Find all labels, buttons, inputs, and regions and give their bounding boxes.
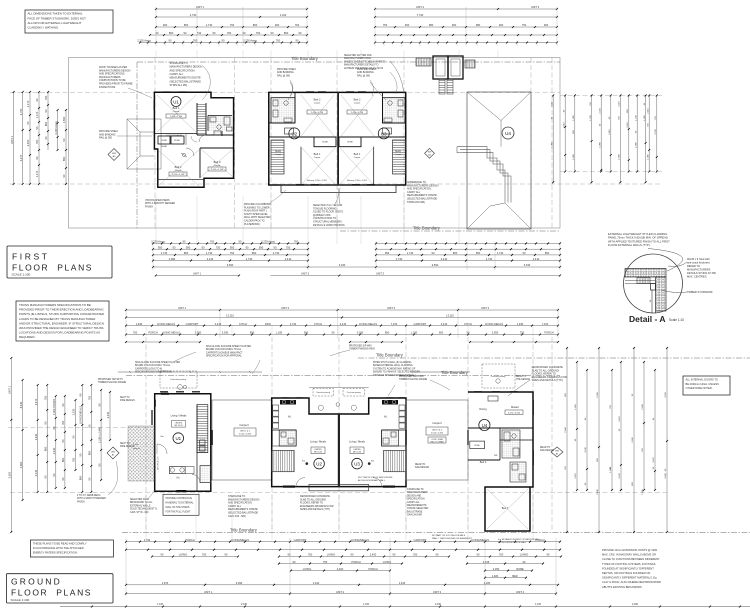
svg-text:2,170: 2,170 — [26, 100, 30, 107]
svg-text:L,180: L,180 — [411, 331, 418, 335]
svg-text:90: 90 — [213, 31, 216, 35]
svg-text:Title Boundary: Title Boundary — [441, 370, 469, 375]
svg-text:1,980: 1,980 — [644, 114, 646, 120]
svg-text:760: 760 — [72, 457, 76, 462]
svg-text:90: 90 — [35, 156, 39, 159]
svg-text:Balcony 2,350 x 1,200: Balcony 2,350 x 1,200 — [307, 180, 328, 182]
svg-text:LIVING: LIVING — [179, 553, 188, 557]
svg-text:THESE PLANS TO BE READ AND COM: THESE PLANS TO BE READ AND COMPLY — [33, 542, 87, 546]
svg-text:UNIT 3 & 4: UNIT 3 & 4 — [432, 429, 443, 431]
svg-text:GROUND: GROUND — [11, 577, 62, 587]
svg-text:760: 760 — [256, 31, 261, 35]
svg-text:Bed 2: Bed 2 — [314, 98, 321, 102]
svg-text:PORCH: PORCH — [544, 331, 553, 335]
svg-text:5,510 x 2,810: 5,510 x 2,810 — [239, 434, 252, 436]
svg-text:860: 860 — [545, 251, 550, 255]
svg-text:2,734: 2,734 — [290, 322, 297, 326]
svg-text:FOR THE FULL FLIGHT.: FOR THE FULL FLIGHT. — [166, 512, 192, 514]
svg-text:90: 90 — [288, 553, 291, 557]
svg-text:760: 760 — [210, 240, 215, 244]
svg-text:2,440: 2,440 — [597, 391, 599, 397]
svg-text:PROPOSED SIP WAY: PROPOSED SIP WAY — [349, 345, 372, 348]
svg-text:LOCATIONS AND DESIGN FOR LOADB: LOCATIONS AND DESIGN FOR LOADBEARING POI… — [19, 331, 100, 335]
svg-text:UNIT 3: UNIT 3 — [433, 590, 442, 594]
svg-text:90: 90 — [161, 553, 164, 557]
svg-text:ALL DIMENSIONS TAKEN TO EXTERN: ALL DIMENSIONS TAKEN TO EXTERNAL — [28, 12, 83, 16]
svg-text:ROBE: ROBE — [516, 567, 524, 571]
svg-text:LIMITED: LIMITED — [314, 449, 322, 451]
svg-text:THE DESIGN: THE DESIGN — [516, 379, 530, 381]
svg-text:750: 750 — [323, 560, 328, 564]
svg-text:90: 90 — [97, 463, 101, 466]
svg-text:90: 90 — [271, 31, 274, 35]
svg-text:1,315: 1,315 — [157, 603, 164, 606]
svg-text:2,440: 2,440 — [565, 426, 567, 432]
svg-text:2,410: 2,410 — [215, 322, 222, 326]
svg-text:2,440: 2,440 — [665, 472, 667, 478]
svg-text:UNIT 3: UNIT 3 — [376, 272, 385, 276]
svg-text:90: 90 — [62, 138, 66, 141]
svg-text:90: 90 — [62, 174, 66, 177]
svg-text:PROPOSED TAP WITH: PROPOSED TAP WITH — [98, 378, 123, 381]
svg-text:SELECTED GUTTER AND: SELECTED GUTTER AND — [344, 54, 372, 57]
svg-text:MANUFACTURERS DESIGN: MANUFACTURERS DESIGN — [170, 66, 203, 69]
svg-text:750: 750 — [133, 331, 138, 335]
svg-text:WM: WM — [428, 152, 432, 154]
svg-text:2,015: 2,015 — [483, 560, 490, 564]
svg-text:Bed 2: Bed 2 — [354, 98, 361, 102]
svg-text:A3: A3 — [112, 453, 115, 456]
svg-text:UNIT 1: UNIT 1 — [196, 5, 205, 9]
svg-text:UNIT 2: UNIT 2 — [416, 5, 425, 9]
svg-text:ALLOW FOR EXTERNAL LIGHTWEIGHT: ALLOW FOR EXTERNAL LIGHTWEIGHT — [28, 21, 82, 25]
svg-text:Kit.: Kit. — [177, 476, 181, 479]
svg-text:WR: WR — [494, 455, 498, 457]
svg-text:740: 740 — [197, 31, 202, 35]
svg-text:90: 90 — [523, 251, 526, 255]
svg-text:CARPORT: CARPORT — [294, 538, 307, 542]
svg-text:SLITTER IN TOP OF BRICKWORK: SLITTER IN TOP OF BRICKWORK — [358, 477, 393, 479]
svg-text:2,440: 2,440 — [106, 411, 110, 418]
svg-text:2,230 Awng: 2,230 Awng — [54, 121, 58, 135]
svg-text:U2: U2 — [291, 131, 297, 136]
svg-text:Concrete paving: Concrete paving — [316, 391, 330, 394]
svg-text:WM: WM — [555, 451, 559, 453]
svg-text:3,030: 3,030 — [222, 331, 229, 335]
svg-text:Carpet: Carpet — [314, 156, 321, 159]
svg-text:Ext: Ext — [302, 459, 306, 462]
svg-text:POINTS (IE LINTELS, STUDS SUPP: POINTS (IE LINTELS, STUDS SUPPORTING CON… — [19, 312, 104, 316]
svg-text:Carpet: Carpet — [175, 169, 182, 172]
svg-text:CLOSE TO JUNCTIONS BETWEEN DIF: CLOSE TO JUNCTIONS BETWEEN DIFFERENT — [602, 557, 660, 561]
svg-text:MANUFACTURERS WALL: MANUFACTURERS WALL — [344, 57, 372, 60]
svg-text:Ext: Ext — [161, 435, 165, 438]
svg-text:BE 2040mm HIGH, UNLESS: BE 2040mm HIGH, UNLESS — [686, 382, 720, 386]
svg-text:Living / Meals: Living / Meals — [310, 440, 327, 444]
svg-text:90: 90 — [35, 98, 39, 101]
svg-text:ALONG BOUNDARY WALL: ALONG BOUNDARY WALL — [358, 479, 386, 482]
svg-text:860: 860 — [88, 450, 92, 455]
svg-text:FINISH: FINISH — [77, 501, 85, 503]
svg-text:PROVIDED PRIOR TO THEIR ERECTI: PROVIDED PRIOR TO THEIR ERECTION AND LOA… — [19, 308, 104, 312]
svg-text:CARPORT: CARPORT — [186, 322, 199, 326]
svg-text:REAR YD: REAR YD — [415, 463, 426, 466]
svg-text:UNIT 1: UNIT 1 — [193, 272, 202, 276]
svg-text:1,490: 1,490 — [575, 403, 577, 409]
svg-text:ACHIEVE FRP RATING OF AS) 60 6: ACHIEVE FRP RATING OF AS) 60 60 — [344, 67, 384, 70]
svg-text:CLAY & ROCK; ALSO WHERE NEW BR: CLAY & ROCK; ALSO WHERE NEW BRICKWORK — [602, 580, 662, 584]
svg-text:750: 750 — [308, 553, 313, 557]
svg-text:760: 760 — [88, 395, 92, 400]
svg-text:EXTERNAL LIGHTWEIGHT STYLED CL: EXTERNAL LIGHTWEIGHT STYLED CLADDING — [608, 232, 667, 236]
svg-text:Detail - A: Detail - A — [629, 314, 666, 324]
svg-text:9,590: 9,590 — [227, 263, 234, 267]
svg-text:860: 860 — [184, 23, 189, 27]
svg-text:90: 90 — [222, 39, 225, 43]
svg-text:2,230 Awng: 2,230 Awng — [243, 39, 257, 43]
svg-text:2,950: 2,950 — [492, 331, 499, 335]
svg-text:KITCH: KITCH — [314, 322, 322, 326]
svg-text:FALL TO REAR: FALL TO REAR — [430, 441, 444, 444]
svg-text:7,730: 7,730 — [417, 13, 424, 17]
svg-text:3,210: 3,210 — [619, 100, 621, 106]
svg-text:MANUFACTURERS: MANUFACTURERS — [687, 268, 711, 272]
svg-text:90: 90 — [432, 251, 435, 255]
svg-text:2,440: 2,440 — [597, 488, 599, 494]
svg-text:760: 760 — [295, 23, 300, 27]
svg-text:5,960: 5,960 — [19, 461, 23, 468]
svg-text:MEASUREMENTS ONSITE: MEASUREMENTS ONSITE — [170, 77, 201, 80]
svg-text:90: 90 — [173, 245, 176, 249]
svg-text:LOADS TO BE DESIGNED BY TRUSS: LOADS TO BE DESIGNED BY TRUSS MANUFACTUR… — [19, 317, 95, 321]
svg-text:2,410: 2,410 — [441, 257, 448, 261]
svg-text:SIZES AND DETAILS (TYP).: SIZES AND DETAILS (TYP). — [532, 379, 564, 382]
svg-text:NO PART OF FOOTING DETAILS: NO PART OF FOOTING DETAILS — [432, 534, 466, 537]
svg-text:TIMBER PLACING FRAME: TIMBER PLACING FRAME — [98, 381, 127, 384]
svg-text:Bed 1: Bed 1 — [173, 106, 180, 110]
svg-text:1,740: 1,740 — [246, 257, 253, 261]
svg-text:PROVIDE CONTINUOUS: PROVIDE CONTINUOUS — [166, 498, 193, 500]
svg-text:2,400: 2,400 — [370, 553, 377, 557]
svg-text:Study: Study — [275, 150, 282, 153]
svg-text:PANEL 75mm THICK 9 (EA)(9) MIN: PANEL 75mm THICK 9 (EA)(9) MIN. OF SPREA… — [608, 236, 668, 240]
svg-text:860: 860 — [79, 475, 83, 480]
svg-text:1,980: 1,980 — [619, 153, 621, 159]
svg-text:590: 590 — [259, 245, 264, 249]
svg-text:90: 90 — [61, 477, 65, 480]
svg-text:CLADDING / WATHING.: CLADDING / WATHING. — [28, 26, 60, 30]
svg-text:UNIT 2: UNIT 2 — [281, 306, 290, 310]
svg-text:980: 980 — [429, 23, 434, 27]
svg-text:1,940: 1,940 — [517, 322, 524, 326]
svg-text:90: 90 — [246, 245, 249, 249]
svg-text:750: 750 — [383, 23, 388, 27]
svg-text:CARPORT: CARPORT — [414, 322, 427, 326]
svg-text:anti-crack thickness: anti-crack thickness — [687, 261, 710, 265]
svg-text:2,410: 2,410 — [340, 322, 347, 326]
svg-text:STAIRCASE TO: STAIRCASE TO — [407, 488, 424, 491]
svg-text:Living / Meals: Living / Meals — [349, 440, 366, 444]
svg-text:LIVING MEALS: LIVING MEALS — [359, 322, 377, 326]
svg-text:13,110: 13,110 — [226, 314, 234, 318]
svg-text:U2: U2 — [316, 462, 322, 467]
svg-text:Kit.: Kit. — [384, 416, 388, 419]
svg-text:2,330: 2,330 — [632, 603, 639, 606]
svg-text:SHEET COVER STITCHES IN PART T: SHEET COVER STITCHES IN PART TO — [344, 60, 386, 63]
svg-text:760: 760 — [294, 240, 299, 244]
svg-text:90: 90 — [184, 31, 187, 35]
svg-text:Carpet: Carpet — [214, 164, 221, 167]
svg-text:SYSTEM TO ACHIEVE MIN. RATING: SYSTEM TO ACHIEVE MIN. RATING OF — [373, 367, 416, 370]
svg-text:860: 860 — [62, 156, 66, 161]
svg-text:CARPORTS ACHIEVE MANUFACT: CARPORTS ACHIEVE MANUFACT — [206, 351, 243, 354]
svg-text:TRUSS MANUFACTURERS SPECIFICAT: TRUSS MANUFACTURERS SPECIFICATIONS TO BE — [19, 303, 91, 307]
svg-text:HOME: HOME — [161, 146, 168, 148]
svg-text:MK 10.20: MK 10.20 — [314, 452, 322, 454]
svg-text:13,110: 13,110 — [446, 314, 454, 318]
svg-text:760: 760 — [230, 251, 235, 255]
svg-text:Kit.: Kit. — [288, 416, 292, 419]
svg-text:1,740: 1,740 — [486, 257, 493, 261]
svg-text:MEASUREMENTS: MEASUREMENTS — [407, 504, 427, 507]
svg-text:750: 750 — [520, 331, 525, 335]
svg-text:1,790: 1,790 — [144, 538, 151, 542]
svg-text:2,950: 2,950 — [195, 331, 202, 335]
svg-text:1,315: 1,315 — [363, 603, 370, 606]
svg-text:UNIT 1 & 2: UNIT 1 & 2 — [240, 430, 251, 432]
svg-text:1,740: 1,740 — [407, 251, 414, 255]
svg-text:750: 750 — [286, 245, 291, 249]
svg-text:FLOOR PLANS: FLOOR PLANS — [12, 263, 93, 273]
svg-text:750: 750 — [413, 553, 418, 557]
svg-text:Carpet: Carpet — [314, 102, 321, 105]
svg-text:LIVING/MEALS: LIVING/MEALS — [231, 538, 249, 542]
svg-text:90: 90 — [88, 477, 92, 480]
svg-text:860: 860 — [453, 251, 458, 255]
svg-text:3,090: 3,090 — [236, 581, 243, 585]
svg-text:DESIGN AND: DESIGN AND — [407, 494, 422, 497]
svg-text:(SELECTED BALUSTRADE: (SELECTED BALUSTRADE — [170, 80, 202, 83]
svg-text:3,210: 3,210 — [627, 121, 629, 127]
svg-text:UNIT 1: UNIT 1 — [204, 590, 213, 594]
svg-text:DEPTHS, OR FOOTINGS FOUNDED ON: DEPTHS, OR FOOTINGS FOUNDED ON — [602, 571, 650, 575]
svg-text:LIVING MEALS: LIVING MEALS — [162, 331, 180, 335]
svg-text:5,500: 5,500 — [8, 471, 12, 478]
svg-text:90: 90 — [79, 393, 83, 396]
svg-text:2,410: 2,410 — [609, 128, 611, 134]
svg-text:REFER TO: REFER TO — [687, 264, 700, 268]
svg-text:90: 90 — [52, 473, 56, 476]
svg-text:90: 90 — [52, 426, 56, 429]
svg-text:1,970: 1,970 — [162, 581, 169, 585]
svg-text:1,490: 1,490 — [642, 488, 644, 494]
svg-text:WM: WM — [112, 153, 116, 155]
svg-text:2,230 Awng: 2,230 Awng — [151, 240, 165, 244]
svg-text:SEAT TO: SEAT TO — [120, 396, 130, 399]
svg-text:760: 760 — [61, 420, 65, 425]
svg-text:DETAILS STUDS AT 450: DETAILS STUDS AT 450 — [687, 271, 716, 275]
svg-text:1,980: 1,980 — [647, 153, 649, 159]
svg-text:90: 90 — [61, 403, 65, 406]
svg-text:CAVL STYD - 040: CAVL STYD - 040 — [130, 511, 149, 514]
svg-text:2,410: 2,410 — [533, 257, 540, 261]
svg-text:900: 900 — [405, 23, 410, 27]
svg-text:SCALE 1:100: SCALE 1:100 — [11, 598, 30, 602]
svg-text:UNIT 3: UNIT 3 — [387, 306, 396, 310]
svg-text:3,140: 3,140 — [619, 472, 621, 478]
svg-text:LIVING/MEALS: LIVING/MEALS — [351, 538, 369, 542]
svg-text:8,440: 8,440 — [19, 401, 23, 408]
svg-text:ABUTTS EXISTING BRICKWORK.: ABUTTS EXISTING BRICKWORK. — [602, 585, 643, 589]
svg-text:2,400: 2,400 — [337, 567, 344, 571]
svg-text:1,740: 1,740 — [590, 114, 592, 120]
svg-text:Bed 2: Bed 2 — [480, 461, 487, 464]
svg-text:2,180: 2,180 — [484, 581, 491, 585]
svg-text:750: 750 — [522, 23, 527, 27]
svg-text:OTHER WISE NOTED.: OTHER WISE NOTED. — [686, 386, 713, 390]
svg-text:1,940: 1,940 — [136, 322, 143, 326]
svg-text:90: 90 — [26, 121, 30, 124]
svg-text:900: 900 — [499, 23, 504, 27]
svg-text:MANUFACTURERS DETAILS TO: MANUFACTURERS DETAILS TO — [344, 64, 379, 67]
svg-text:3,210: 3,210 — [207, 257, 214, 261]
svg-text:Bed 1: Bed 1 — [314, 152, 321, 156]
svg-text:FLOOR EXTERNAL WALLS (TYP).: FLOOR EXTERNAL WALLS (TYP). — [608, 243, 651, 247]
svg-text:2,230: 2,230 — [599, 107, 601, 113]
svg-text:Concrete paving: Concrete paving — [491, 375, 506, 378]
svg-text:950: 950 — [230, 245, 235, 249]
svg-text:A3: A3 — [113, 155, 116, 158]
svg-text:7,070: 7,070 — [391, 322, 398, 326]
svg-text:2 TO 3 H GREB REFG: 2 TO 3 H GREB REFG — [77, 495, 101, 497]
svg-text:Master: Master — [511, 405, 519, 409]
svg-text:TIMBER PHASING RING: TIMBER PHASING RING — [349, 348, 375, 351]
svg-text:UNIT 1: UNIT 1 — [10, 135, 14, 144]
svg-text:90: 90 — [202, 245, 205, 249]
svg-text:LIVING: LIVING — [520, 553, 529, 557]
svg-text:90: 90 — [44, 109, 48, 112]
svg-text:90: 90 — [43, 475, 47, 478]
svg-text:860: 860 — [44, 121, 48, 126]
svg-text:Title Boundary: Title Boundary — [413, 226, 441, 231]
svg-text:CARRY ALL: CARRY ALL — [170, 73, 184, 76]
svg-text:1,315: 1,315 — [535, 603, 542, 606]
svg-text:EXTERNAL WALLS: EXTERNAL WALLS — [130, 504, 151, 507]
svg-text:760: 760 — [276, 39, 281, 43]
svg-text:REQUIRED.: REQUIRED. — [19, 335, 36, 339]
svg-text:2,670 BULKHEAD: 2,670 BULKHEAD — [166, 134, 183, 137]
svg-text:AND SPECIFICATION.: AND SPECIFICATION. — [170, 69, 196, 72]
svg-text:ROBE: ROBE — [322, 142, 328, 144]
svg-text:90: 90 — [523, 560, 526, 564]
svg-text:FLOOR PLANS: FLOOR PLANS — [11, 588, 92, 598]
svg-text:90: 90 — [299, 31, 302, 35]
svg-text:IN ACCORDANCE WITH THE ATTACHE: IN ACCORDANCE WITH THE ATTACHED — [33, 546, 84, 550]
svg-text:U1: U1 — [173, 99, 179, 104]
svg-text:760: 760 — [227, 31, 232, 35]
svg-text:SIZES AND DETAILS (TYP): SIZES AND DETAILS (TYP) — [300, 508, 330, 511]
svg-text:90: 90 — [72, 435, 76, 438]
svg-text:90: 90 — [239, 240, 242, 244]
svg-text:Scale 1:10: Scale 1:10 — [669, 318, 684, 322]
svg-text:ROBE: ROBE — [174, 140, 180, 142]
svg-text:1,100: 1,100 — [280, 13, 287, 17]
svg-text:900: 900 — [439, 331, 444, 335]
svg-text:U3: U3 — [381, 131, 387, 136]
svg-text:UP 17R @ 175: UP 17R @ 175 — [158, 456, 160, 470]
svg-text:850: 850 — [250, 331, 255, 335]
svg-text:ROBE: ROBE — [161, 140, 167, 142]
svg-text:WALL / THROUGH BELOW EASEMENT: WALL / THROUGH BELOW EASEMENT — [432, 537, 472, 540]
svg-text:CONC. SLAB: CONC. SLAB — [431, 438, 443, 441]
svg-text:KITCH: KITCH — [239, 322, 247, 326]
svg-text:2,440: 2,440 — [632, 436, 634, 442]
svg-text:SPECIFICATIONS FOR APPROVAL: SPECIFICATIONS FOR APPROVAL — [135, 371, 173, 374]
svg-text:U1: U1 — [175, 436, 181, 441]
svg-text:2,410: 2,410 — [285, 257, 292, 261]
svg-text:90: 90 — [296, 39, 299, 43]
svg-text:BOARD COLOUR LINING TO ALL: BOARD COLOUR LINING TO ALL — [135, 364, 171, 367]
svg-text:ROBE: ROBE — [474, 445, 480, 447]
svg-text:BASED EXTERNAL WALL CLADDING: BASED EXTERNAL WALL CLADDING — [373, 364, 413, 367]
svg-text:1,740: 1,740 — [206, 251, 213, 255]
svg-text:SPECIFICATION FOR APPROVAL.: SPECIFICATION FOR APPROVAL. — [206, 355, 243, 358]
svg-text:KITCH: KITCH — [464, 322, 472, 326]
svg-text:CARPORTS (LONG TO A): CARPORTS (LONG TO A) — [135, 367, 162, 370]
svg-text:2,330: 2,330 — [241, 603, 248, 606]
svg-text:LIVING MEALS: LIVING MEALS — [157, 322, 175, 326]
svg-text:1,980: 1,980 — [573, 114, 575, 120]
svg-text:GAIN 3/43 MR: GAIN 3/43 MR — [407, 514, 422, 517]
svg-text:MANUFACTURERS: MANUFACTURERS — [407, 491, 428, 494]
svg-text:90: 90 — [332, 331, 335, 335]
svg-text:SIGNIFICANTLY DIFFERENT MATERI: SIGNIFICANTLY DIFFERENT MATERIALS, Eg. — [602, 576, 657, 580]
svg-text:860: 860 — [253, 23, 258, 27]
svg-text:900: 900 — [452, 23, 457, 27]
svg-text:UNIT 2: UNIT 2 — [336, 590, 345, 594]
svg-text:SCALE 1:100: SCALE 1:100 — [12, 273, 31, 277]
svg-text:PORCH: PORCH — [148, 331, 157, 335]
svg-text:Carpet: Carpet — [275, 153, 281, 156]
svg-text:2,410: 2,410 — [441, 322, 448, 326]
svg-text:TIMBER STUDWORK.: TIMBER STUDWORK. — [687, 290, 714, 294]
svg-text:HANDRAIL TO EXTERNAL: HANDRAIL TO EXTERNAL — [166, 502, 195, 505]
svg-text:90: 90 — [225, 553, 228, 557]
svg-text:Carport: Carport — [239, 423, 249, 427]
svg-text:LIMITED: LIMITED — [175, 422, 183, 424]
svg-text:SOLID TECHNIQUE/STYL: SOLID TECHNIQUE/STYL — [130, 509, 158, 511]
svg-text:STRIM 2/16 MR): STRIM 2/16 MR) — [407, 201, 425, 204]
svg-text:Ext: Ext — [371, 459, 375, 462]
svg-text:60/60/60 TO A MANUF. SELECTED: 60/60/60 TO A MANUF. SELECTED RENDER — [373, 371, 420, 374]
svg-text:BOARD COLOUR LINING TO ALL: BOARD COLOUR LINING TO ALL — [206, 348, 242, 351]
svg-text:UNIT 4: UNIT 4 — [481, 306, 490, 310]
svg-text:2,730: 2,730 — [273, 251, 280, 255]
svg-text:1,740: 1,740 — [396, 257, 403, 261]
svg-text:2,410 x 3,700: 2,410 x 3,700 — [170, 116, 183, 118]
svg-text:FIRST: FIRST — [12, 252, 50, 262]
svg-text:900: 900 — [304, 331, 309, 335]
svg-text:SEAT TO: SEAT TO — [120, 442, 130, 445]
svg-text:Carport: Carport — [432, 421, 442, 425]
svg-text:U3: U3 — [354, 462, 360, 467]
svg-text:2,230 Awng: 2,230 Awng — [261, 240, 275, 244]
svg-text:90: 90 — [43, 421, 47, 424]
svg-text:590: 590 — [186, 245, 191, 249]
svg-text:ALONG BNDRY WITH WALL: ALONG BNDRY WITH WALL — [498, 541, 527, 544]
svg-text:860: 860 — [61, 457, 65, 462]
svg-text:BALUSTRADE: BALUSTRADE — [407, 510, 423, 513]
